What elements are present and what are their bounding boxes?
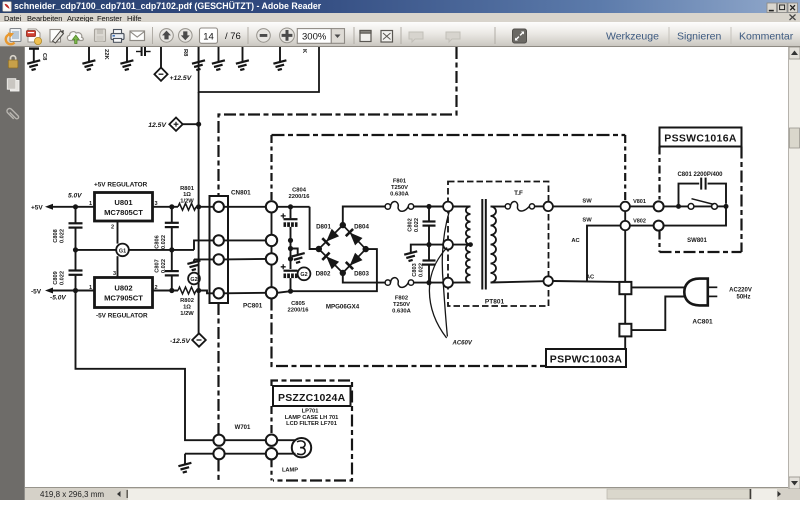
svg-text:F801: F801 — [393, 179, 407, 185]
pin PC801-2 — [266, 235, 277, 246]
diode D804 — [346, 229, 363, 246]
svg-text:1: 1 — [89, 285, 92, 291]
junction — [288, 204, 293, 209]
pin 1 — [214, 202, 224, 212]
diode D801 — [322, 229, 339, 246]
boundary dash (lamp module left edge) — [270, 406, 272, 481]
svg-text:3: 3 — [113, 271, 116, 277]
transformer primary winding — [491, 207, 497, 283]
capacitor (partial, top edge) — [29, 47, 39, 49]
wire — [225, 439, 266, 441]
ground — [218, 47, 220, 62]
svg-text:0.022: 0.022 — [161, 259, 167, 273]
svg-text:G1: G1 — [119, 248, 126, 254]
resistor R801 — [178, 203, 196, 210]
svg-text:D803: D803 — [354, 271, 369, 278]
boundary dash (switch board right) — [740, 147, 742, 253]
wire — [224, 206, 266, 208]
junction — [468, 242, 473, 247]
junction — [426, 242, 431, 247]
svg-text:D804: D804 — [354, 223, 369, 230]
svg-text:2: 2 — [111, 225, 114, 231]
diode D802 — [322, 253, 339, 270]
capacitor C802 — [423, 207, 436, 245]
svg-text:MPG06GX4: MPG06GX4 — [326, 304, 360, 311]
svg-text:D801: D801 — [316, 223, 331, 230]
wire (main vertical bus from upper block to -12.5V) — [198, 92, 200, 334]
expand icon — [513, 29, 527, 43]
boundary dash (outer module, left below CN801) — [217, 303, 219, 435]
svg-text:C801 2200P/400: C801 2200P/400 — [677, 172, 723, 178]
wire — [224, 292, 266, 295]
wire — [160, 47, 162, 68]
terminal 2 — [443, 240, 453, 250]
ground — [184, 454, 186, 464]
module label box PSZZC1024A — [273, 386, 351, 406]
wire — [182, 123, 198, 125]
capacitor C806 — [165, 207, 179, 250]
ground — [120, 60, 133, 70]
sign icon — [50, 30, 64, 44]
svg-text:R8: R8 — [182, 49, 188, 57]
svg-text:SW: SW — [582, 199, 592, 205]
svg-text:Werkzeuge: Werkzeuge — [606, 31, 659, 43]
svg-text:+5V: +5V — [31, 205, 43, 212]
svg-text:1Ω: 1Ω — [183, 305, 191, 311]
svg-text:-5V REGULATOR: -5V REGULATOR — [96, 313, 148, 320]
ground (G2 net) — [193, 259, 195, 261]
svg-text:5.0V: 5.0V — [68, 193, 82, 200]
svg-text:AC: AC — [571, 238, 580, 244]
pin W701-2 — [213, 448, 224, 459]
svg-text:V801: V801 — [633, 199, 646, 205]
zoom in button — [280, 28, 295, 43]
node +12.5V diamond — [154, 68, 167, 81]
boundary dash (power board, left) — [270, 135, 272, 201]
zoom out button — [257, 29, 271, 43]
junction — [316, 246, 322, 252]
pin 3 — [214, 254, 224, 264]
wire — [224, 258, 266, 261]
svg-text:1Ω: 1Ω — [183, 192, 191, 198]
svg-text:LCD FILTER LF701: LCD FILTER LF701 — [286, 421, 337, 427]
svg-text:PT801: PT801 — [485, 299, 505, 306]
wire — [117, 256, 119, 277]
svg-text:0.630A: 0.630A — [390, 192, 410, 198]
wire — [196, 291, 213, 294]
boundary dash (lamp module box) — [272, 381, 353, 481]
junction — [169, 204, 174, 209]
junction — [340, 270, 346, 276]
svg-text:0.022: 0.022 — [60, 271, 66, 285]
wire (- rail to bridge right corner) — [291, 249, 377, 291]
wire — [453, 244, 471, 246]
capacitor C803b — [423, 245, 436, 283]
svg-text:T250V: T250V — [393, 302, 410, 308]
connector terminal (square, upper) — [619, 282, 631, 294]
wire (bus through PC801) — [271, 213, 273, 288]
svg-text:U801: U801 — [114, 198, 133, 207]
page number box — [200, 28, 218, 43]
node 12.5V diamond — [169, 118, 182, 131]
boundary dash (power board, top) — [272, 134, 626, 136]
svg-text:Signieren: Signieren — [677, 31, 722, 43]
disabled comment icons — [409, 32, 423, 42]
svg-text:1/2W: 1/2W — [180, 199, 194, 205]
fuse F801 — [385, 202, 414, 212]
terminal — [654, 201, 664, 211]
junction — [426, 204, 431, 209]
wire (to bridge left corner) — [310, 207, 319, 249]
wire (+ rail to bridge) — [277, 206, 309, 208]
svg-text:F802: F802 — [395, 296, 408, 302]
save icon (disabled) — [95, 29, 106, 42]
svg-text:T.F: T.F — [514, 190, 523, 197]
boundary dash (outer module, top right) — [219, 47, 457, 196]
regulator U802 — [95, 278, 153, 308]
capacitor C804 (electrolytic) — [281, 207, 298, 241]
node G1 — [116, 244, 129, 257]
fit width icon — [360, 31, 371, 42]
terminal 5 — [544, 276, 553, 285]
svg-text:2200/16: 2200/16 — [288, 308, 310, 314]
module label box PSPWC1003A — [546, 349, 626, 367]
svg-text:W701: W701 — [235, 425, 251, 431]
svg-text:AC801: AC801 — [692, 319, 713, 326]
node V801 — [621, 202, 630, 211]
wire — [196, 206, 213, 208]
wire (to plug pin 2) — [631, 297, 684, 331]
svg-text:1/2W: 1/2W — [180, 311, 194, 317]
capacitor C809 — [69, 250, 83, 291]
svg-text:LP701: LP701 — [302, 409, 319, 415]
wire — [535, 205, 544, 207]
svg-text:C806: C806 — [155, 235, 161, 248]
wire — [453, 281, 471, 283]
status bar with horizontal scrollbar — [25, 487, 800, 500]
svg-text:SW: SW — [582, 218, 592, 224]
junction — [426, 280, 431, 285]
svg-text:G2: G2 — [190, 277, 197, 283]
node G2 — [188, 273, 200, 285]
navigation sidebar — [0, 47, 25, 500]
junction — [363, 246, 369, 252]
svg-text:1: 1 — [89, 201, 92, 207]
pin PC801-1 — [266, 201, 277, 212]
fuse F802 — [385, 278, 414, 288]
junction — [73, 288, 78, 293]
connector terminal (square, lower) — [619, 324, 631, 337]
wire — [453, 206, 471, 208]
junction — [169, 288, 174, 293]
open icon — [6, 29, 21, 45]
wire (bridge top to F801) — [343, 207, 385, 226]
wire SW (V802 row) — [587, 226, 620, 282]
svg-text:LAMP: LAMP — [282, 468, 298, 474]
wire — [491, 206, 506, 208]
node V802 — [621, 221, 630, 230]
svg-text:300%: 300% — [302, 32, 327, 43]
svg-text:0.022: 0.022 — [414, 218, 420, 232]
svg-text:AC60V: AC60V — [452, 341, 473, 347]
pin 2 — [214, 235, 224, 245]
svg-text:K: K — [301, 49, 307, 54]
svg-text:R802: R802 — [180, 298, 194, 304]
toolbar — [0, 22, 800, 47]
svg-text:PC801: PC801 — [243, 303, 263, 310]
wire — [153, 290, 179, 292]
ground — [198, 47, 200, 62]
wire — [414, 206, 444, 208]
junction — [288, 238, 293, 243]
window title bar — [0, 0, 800, 13]
wire — [52, 206, 95, 208]
capacitor (partial, top edge) — [136, 47, 151, 56]
transformer box PT801 — [448, 182, 549, 307]
pin 4 — [214, 288, 224, 298]
junction — [73, 247, 78, 252]
wire — [33, 49, 35, 62]
fit page icon — [381, 31, 393, 43]
svg-text:+12.5V: +12.5V — [170, 75, 193, 82]
ground — [404, 251, 417, 261]
junction — [724, 204, 729, 209]
wire — [126, 47, 128, 62]
terminal — [654, 221, 664, 231]
svg-text:0.022: 0.022 — [60, 229, 66, 243]
svg-text:C807: C807 — [155, 259, 161, 272]
svg-text:14: 14 — [203, 31, 214, 42]
pin PC801-3 — [266, 253, 277, 264]
node G2 — [298, 267, 311, 280]
wire — [153, 206, 179, 208]
capacitor C803 — [69, 207, 83, 250]
svg-text:0.022: 0.022 — [419, 263, 425, 277]
svg-text:MC7805CT: MC7805CT — [104, 208, 143, 217]
diode D803 — [346, 253, 363, 270]
wire — [277, 453, 295, 455]
wire — [224, 239, 266, 241]
wire — [664, 205, 689, 207]
svg-text:C802: C802 — [408, 218, 414, 231]
leader curve AC60V (upper) — [442, 211, 449, 337]
svg-text:Kommentar: Kommentar — [739, 31, 794, 43]
svg-text:C804: C804 — [292, 188, 307, 194]
junction — [288, 289, 293, 294]
wire — [630, 225, 654, 227]
terminal 3 — [443, 278, 453, 288]
svg-text:0.022: 0.022 — [161, 235, 167, 249]
module label box PSSWC1016A — [660, 128, 742, 147]
wire (CN801 pin3 to ground) — [194, 258, 213, 260]
pin (lamp box 1) — [266, 435, 277, 446]
switch SW801 — [688, 199, 726, 210]
boundary dash (switch board left) — [658, 147, 660, 253]
svg-text:-5V: -5V — [31, 289, 42, 296]
vertical scrollbar — [788, 47, 800, 489]
wire (lamp feed from regulator board) — [76, 291, 214, 441]
cloud upload icon — [67, 32, 83, 44]
junction — [73, 204, 78, 209]
junction — [196, 122, 201, 127]
convert icon — [27, 29, 42, 45]
node -12.5V diamond — [192, 333, 206, 346]
junction — [676, 204, 681, 209]
email icon — [130, 31, 145, 41]
bridge rectifier diamond — [319, 225, 366, 273]
capacitor C807 — [165, 250, 179, 291]
svg-text:AC220V: AC220V — [729, 288, 752, 294]
wire — [277, 439, 295, 441]
regulator U801 — [95, 193, 153, 222]
svg-text:LAMP CASE LH 701: LAMP CASE LH 701 — [285, 415, 339, 421]
svg-text:G2: G2 — [300, 272, 307, 278]
junction — [196, 204, 201, 209]
wire — [129, 249, 194, 251]
svg-text:12.5V: 12.5V — [148, 122, 167, 129]
svg-text:2200/16: 2200/16 — [289, 194, 311, 200]
svg-text:CN801: CN801 — [231, 190, 251, 197]
svg-text:-12.5V: -12.5V — [170, 338, 191, 345]
page up button — [160, 29, 174, 43]
plug prongs — [708, 286, 718, 288]
pin PC801-4 — [266, 287, 277, 298]
wire — [88, 47, 90, 62]
svg-text:50Hz: 50Hz — [736, 295, 750, 301]
capacitor C801 — [679, 178, 727, 207]
svg-text:-5.0V: -5.0V — [50, 295, 66, 302]
wire — [630, 205, 654, 207]
svg-text:C803: C803 — [412, 263, 418, 276]
print icon — [111, 30, 124, 43]
junction — [196, 288, 201, 293]
svg-text:+5V REGULATOR: +5V REGULATOR — [94, 182, 148, 189]
wire (- rail) — [277, 291, 290, 293]
wire (switched bus vertical) — [624, 211, 626, 349]
leader curve AC60V (lower) — [429, 248, 447, 339]
wire (jog up to CN801 pin2) — [194, 240, 213, 250]
svg-text:PSSWC1016A: PSSWC1016A — [664, 133, 737, 145]
wire (bridge bottom to F802) — [343, 273, 385, 283]
svg-text:C805: C805 — [291, 301, 306, 307]
junction — [340, 222, 346, 228]
boundary dash (switch board bottom) — [660, 251, 742, 253]
svg-text:0.630A: 0.630A — [392, 309, 412, 315]
wire — [225, 453, 266, 455]
wire (G1 rail) — [76, 249, 117, 251]
lamp LP701 — [292, 438, 311, 457]
junction — [169, 247, 174, 252]
boundary dash (power board, right drop to V801) — [624, 135, 626, 201]
ground — [27, 60, 40, 70]
page down button — [179, 29, 193, 43]
terminal 1 — [443, 202, 453, 212]
wire — [52, 290, 95, 292]
wire (AC row to connector) — [553, 280, 620, 283]
svg-text:T250V: T250V — [391, 185, 408, 191]
svg-text:U802: U802 — [114, 284, 132, 293]
svg-text:22K: 22K — [103, 49, 109, 60]
svg-text:/ 76: / 76 — [225, 31, 241, 42]
wire SW (V801 row) — [553, 205, 621, 207]
pin W701-1 — [213, 435, 224, 446]
resistor R802 — [178, 287, 196, 294]
wire (center tap to ground) — [411, 245, 444, 253]
capacitor C805 (electrolytic) — [281, 264, 298, 291]
transformer core — [481, 199, 483, 290]
zoom level combo — [297, 29, 331, 44]
svg-text:V802: V802 — [633, 218, 646, 224]
wire — [414, 282, 444, 284]
wire — [290, 240, 292, 269]
terminal 4 — [544, 202, 553, 211]
svg-text:PSPWC1003A: PSPWC1003A — [550, 354, 623, 366]
svg-text:MC7905CT: MC7905CT — [104, 294, 143, 303]
wire (switch return to V802) — [664, 206, 726, 225]
menu bar — [0, 13, 800, 22]
wire (to plug pin 1) — [631, 286, 684, 288]
boundary dash (below W701) — [217, 459, 219, 481]
svg-text:C8: C8 — [41, 53, 47, 61]
svg-text:PSZZC1024A: PSZZC1024A — [278, 392, 346, 404]
ground — [82, 60, 95, 70]
svg-text:SW801: SW801 — [687, 238, 707, 244]
wire — [185, 453, 213, 455]
svg-text:D802: D802 — [316, 271, 331, 278]
ground — [279, 47, 281, 62]
boundary dash (power board, bottom left) — [272, 299, 547, 367]
junction — [288, 246, 293, 251]
transformer secondary winding — [466, 207, 471, 283]
svg-text:C809: C809 — [53, 271, 59, 284]
ground — [242, 47, 244, 62]
plug AC801 — [684, 279, 708, 306]
ground (G2 net) — [291, 249, 298, 255]
svg-text:C808: C808 — [53, 229, 59, 242]
svg-text:AC: AC — [586, 275, 595, 281]
junction — [288, 256, 293, 261]
box (upper circuit block, cut off) — [199, 47, 319, 92]
pin (lamp box 2) — [266, 448, 277, 459]
wire — [117, 221, 119, 244]
wire — [491, 281, 544, 282]
